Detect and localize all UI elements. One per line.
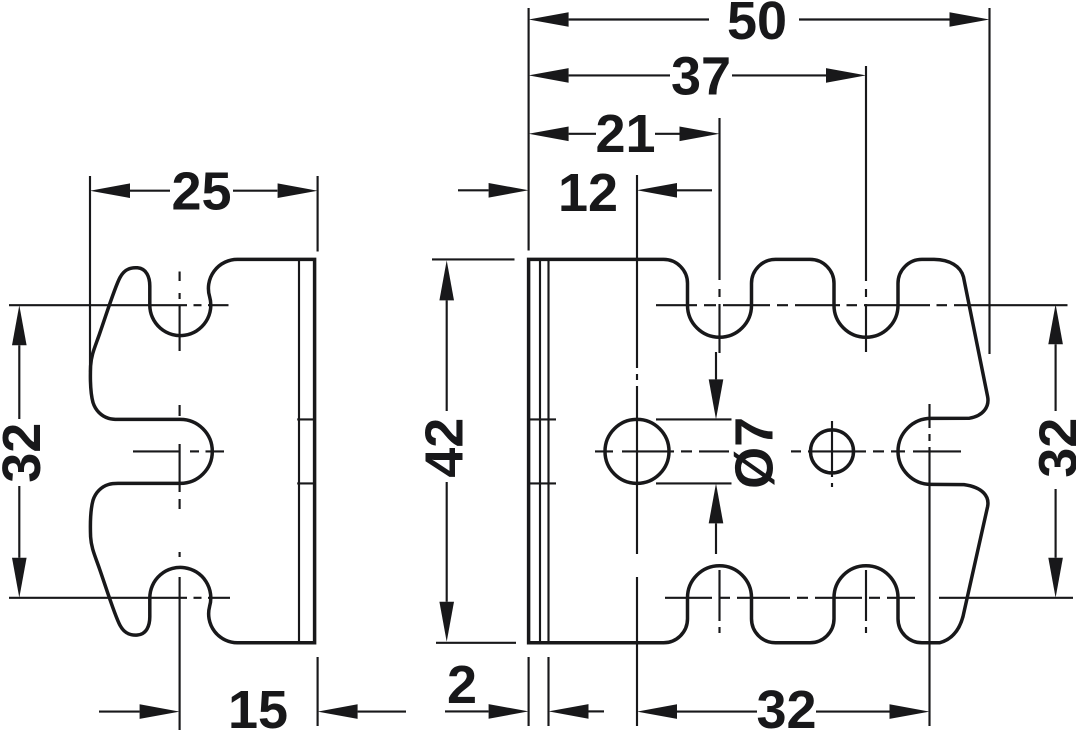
svg-text:50: 50	[727, 0, 787, 51]
svg-text:21: 21	[595, 104, 655, 164]
svg-text:25: 25	[171, 161, 231, 221]
svg-text:37: 37	[671, 46, 731, 106]
svg-text:32: 32	[0, 423, 52, 483]
svg-text:42: 42	[415, 418, 475, 478]
svg-text:12: 12	[558, 163, 618, 223]
svg-text:Ø7: Ø7	[725, 417, 785, 489]
svg-text:15: 15	[228, 680, 288, 730]
svg-text:2: 2	[447, 655, 477, 715]
svg-text:32: 32	[1029, 418, 1076, 478]
svg-text:32: 32	[756, 680, 816, 730]
